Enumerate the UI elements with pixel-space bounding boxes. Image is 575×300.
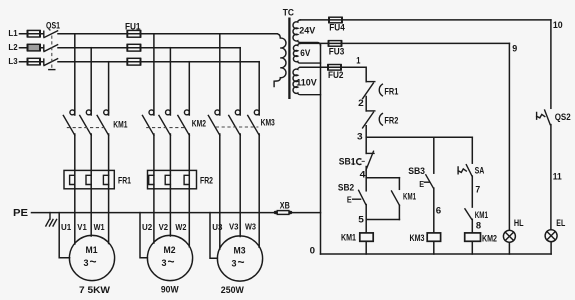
fuse FU1 pole 1 — [127, 30, 140, 38]
svg-text:L3: L3 — [8, 56, 17, 66]
wire drop group3 phase C — [258, 62, 260, 115]
svg-text:4: 4 — [360, 169, 367, 180]
svg-text:2: 2 — [358, 97, 364, 108]
thermal relay FR1 label — [118, 176, 131, 186]
wire XB to control return — [292, 212, 320, 214]
coil KM1 label — [341, 233, 356, 243]
label V1 — [77, 222, 87, 232]
thermal contact FR2 — [363, 111, 383, 128]
svg-text:7: 7 — [475, 183, 480, 194]
transformer TC secondary 6V — [293, 43, 320, 63]
motor M1 — [69, 235, 114, 280]
svg-text:E: E — [419, 179, 424, 189]
wire FR2 to motor M2 — [154, 189, 189, 247]
wire M2 frame earth — [140, 213, 147, 258]
svg-text:90W: 90W — [161, 285, 179, 295]
switch QS1 pole 2 — [44, 45, 58, 52]
label U2 — [142, 222, 152, 232]
thermal contact FR1 label — [384, 86, 398, 96]
node PE label — [13, 208, 28, 219]
label U3 — [212, 222, 222, 232]
svg-text:SB2: SB2 — [338, 182, 354, 192]
wire drop group1 phase B — [90, 48, 92, 115]
wire FU3 to node 9 — [342, 42, 510, 44]
wire coil KM1 to rail 0 — [365, 241, 367, 254]
wire M1 frame earth — [59, 213, 69, 258]
label U1 — [61, 222, 71, 232]
node 10 — [553, 19, 563, 30]
svg-text:W3: W3 — [245, 222, 256, 232]
svg-text:L1: L1 — [8, 28, 17, 38]
svg-text:V3: V3 — [229, 222, 239, 232]
wire 110V to FU2 — [300, 66, 341, 68]
coil KM2 label — [482, 233, 497, 243]
wire group1 to FR1 — [75, 134, 109, 189]
svg-text:V1: V1 — [77, 222, 87, 232]
contactor KM2 main contacts — [142, 110, 189, 135]
wire 24V to FU4 — [300, 19, 342, 21]
wire PE line — [32, 212, 275, 214]
svg-text:FU3: FU3 — [329, 47, 345, 57]
svg-text:3: 3 — [232, 258, 237, 268]
transformer TC label — [283, 6, 294, 17]
wire node 4 rail — [366, 167, 399, 178]
terminal XT3 on L3 — [28, 58, 41, 65]
svg-text:10: 10 — [553, 19, 563, 30]
svg-text:KM1: KM1 — [475, 210, 488, 220]
svg-text:~: ~ — [238, 255, 245, 269]
wire 6V to FU3 — [300, 42, 342, 44]
node 9 — [512, 42, 517, 53]
svg-text:QS1: QS1 — [46, 20, 60, 30]
switch QS2 — [537, 110, 551, 125]
bus L2 — [58, 47, 240, 49]
lamp EL — [545, 230, 557, 242]
node 7 — [475, 183, 480, 194]
wire group2 to FR2 — [154, 134, 189, 189]
node 1 — [356, 54, 360, 65]
svg-text:110V: 110V — [296, 77, 317, 87]
terminal XB label — [280, 200, 290, 210]
svg-text:KM2: KM2 — [192, 117, 206, 128]
coil KM3 — [427, 233, 440, 241]
transformer TC secondary 110V — [293, 67, 320, 94]
svg-text:3: 3 — [84, 258, 89, 268]
coil KM2 — [465, 233, 481, 241]
thermal relay FR2 — [148, 170, 197, 188]
wire node 2 — [365, 97, 367, 111]
svg-text:3: 3 — [357, 130, 363, 141]
node L2 — [8, 42, 17, 52]
svg-text:HL: HL — [514, 218, 524, 228]
wire drop group2 phase B — [169, 48, 171, 115]
fuse FU2 — [328, 64, 341, 70]
fuse FU4 — [329, 17, 342, 23]
wire FR1 to motor M1 — [75, 189, 109, 244]
ground — [46, 213, 57, 226]
node 5 — [358, 213, 364, 224]
wire SB3 to coil KM3 — [433, 188, 435, 233]
contact KM1 self-hold — [392, 178, 400, 220]
svg-text:FU2: FU2 — [328, 70, 344, 80]
wire HL to rail 0 — [508, 242, 510, 254]
lamp HL label — [514, 218, 524, 228]
wire group3 to motor M3 — [220, 134, 259, 249]
wire M3 frame earth — [210, 213, 217, 259]
svg-text:SB3: SB3 — [408, 166, 425, 176]
terminal XT1 on L1 — [28, 30, 41, 37]
wire drop group3 phase A — [219, 34, 221, 115]
lamp EL label — [556, 218, 565, 228]
wire drop group3 phase B — [239, 48, 241, 115]
wire node 10 down to QS2 — [550, 20, 552, 108]
wire rail 0 — [321, 253, 552, 255]
contactor KM1 main contacts — [63, 110, 108, 135]
transformer TC core — [288, 18, 290, 100]
svg-text:QS2: QS2 — [555, 112, 571, 122]
svg-text:U2: U2 — [142, 222, 152, 232]
node 2 — [358, 97, 364, 108]
node 11 — [553, 170, 562, 181]
motor M2 — [147, 235, 192, 280]
bus L1 — [58, 33, 277, 35]
svg-text:KM1: KM1 — [113, 118, 127, 129]
pushbutton SB2 label — [338, 182, 354, 192]
svg-text:FR2: FR2 — [384, 115, 398, 125]
wire L3 lead-in — [20, 61, 44, 63]
wire drop group1 phase C — [108, 62, 110, 115]
svg-text:8: 8 — [476, 219, 481, 230]
pushbutton SB3 (NO jog) — [419, 137, 434, 189]
thermal relay FR2 label — [200, 176, 213, 186]
pushbutton SB2 (NO start) — [347, 178, 366, 205]
fuse FU3 label — [329, 47, 345, 57]
node 6 — [436, 205, 441, 216]
svg-text:0: 0 — [310, 245, 315, 256]
node L1 — [8, 28, 17, 38]
wire FU2 to node 1 — [341, 67, 366, 81]
switch QS1 pole 1 — [44, 31, 58, 38]
label W2 — [175, 222, 186, 232]
contact KM1 in KM2 branch — [465, 209, 472, 220]
svg-text:KM3: KM3 — [261, 116, 275, 127]
wire L2 lead-in — [20, 47, 44, 49]
wire drop group2 phase C — [188, 62, 190, 115]
thermal relay FR1 — [64, 170, 114, 188]
switch QS1 linkage dashed — [49, 36, 55, 70]
pushbutton SB1 label — [339, 156, 356, 166]
thermal contact FR1 — [363, 82, 383, 99]
svg-text:PE: PE — [13, 208, 28, 219]
node 8 — [476, 219, 481, 230]
fuse FU1 label — [125, 22, 141, 32]
wire L1 lead-in — [20, 33, 44, 35]
contact KM1 in KM2 branch label — [475, 210, 488, 220]
svg-text:7 5KW: 7 5KW — [79, 285, 110, 295]
svg-text:FU4: FU4 — [329, 23, 345, 33]
thermal contact FR2 label — [384, 115, 398, 125]
switch QS2 label — [555, 112, 571, 122]
fuse FU3 — [329, 40, 342, 46]
wire common return — [320, 44, 322, 254]
label V3 — [229, 222, 239, 232]
wire drop group1 phase A — [74, 34, 76, 115]
wire node 3 rail — [366, 126, 472, 138]
coil KM1 — [360, 233, 373, 241]
label M3 power — [221, 285, 244, 295]
wire node 5 rail — [366, 205, 399, 233]
wire SA to contact KM1 — [471, 176, 473, 207]
node 0 — [310, 245, 315, 256]
svg-text:KM2: KM2 — [482, 233, 497, 243]
svg-text:9: 9 — [512, 42, 517, 53]
wire coil KM3 to rail 0 — [433, 241, 435, 254]
fuse FU1 pole 3 — [127, 58, 140, 66]
svg-text:KM1: KM1 — [403, 191, 416, 201]
svg-text:V2: V2 — [159, 222, 169, 232]
svg-text:FR1: FR1 — [118, 176, 131, 186]
wire FU4 to node 10 — [342, 19, 551, 21]
svg-text:FR1: FR1 — [384, 86, 398, 96]
pushbutton SB1 (NC stop) — [353, 137, 374, 170]
contactor KM2 label — [192, 117, 206, 128]
svg-text:3: 3 — [162, 258, 167, 268]
contact KM1 self-hold label — [403, 191, 416, 201]
wire drop group2 phase A — [153, 34, 155, 115]
svg-text:XB: XB — [280, 200, 290, 210]
switch QS1 pole 3 — [44, 59, 58, 66]
motor M3 — [217, 236, 262, 281]
contactor KM3 main contacts — [208, 110, 259, 135]
svg-text:TC: TC — [283, 6, 294, 17]
svg-text:1: 1 — [356, 54, 360, 65]
wire coil KM2 to rail 0 — [471, 241, 473, 254]
switch QS1 label — [46, 20, 60, 30]
svg-text:6V: 6V — [300, 48, 310, 58]
svg-text:24V: 24V — [299, 25, 315, 35]
svg-text:E: E — [347, 194, 352, 204]
transformer TC secondary 24V — [293, 20, 320, 46]
switch SA label — [475, 166, 485, 176]
label W1 — [94, 222, 105, 232]
svg-text:FR2: FR2 — [200, 176, 213, 186]
lamp HL — [503, 230, 515, 242]
contactor KM3 label — [261, 116, 275, 127]
wire node 9 down to lamp HL — [508, 43, 510, 230]
label M1 power — [79, 285, 110, 295]
fuse FU1 pole 2 — [127, 44, 140, 52]
node 3 — [357, 130, 363, 141]
label V2 — [159, 222, 169, 232]
terminal XB — [274, 211, 293, 215]
svg-text:~: ~ — [168, 254, 175, 268]
fuse FU2 label — [328, 70, 344, 80]
contactor KM1 label — [113, 118, 127, 129]
svg-text:250W: 250W — [221, 285, 244, 295]
transformer TC primary — [274, 34, 286, 87]
svg-text:~: ~ — [90, 254, 97, 268]
svg-text:W2: W2 — [175, 222, 186, 232]
pushbutton SB3 label — [408, 166, 425, 176]
bus L3 — [58, 61, 259, 63]
svg-text:5: 5 — [358, 213, 364, 224]
svg-text:W1: W1 — [94, 222, 105, 232]
node L3 — [8, 56, 17, 66]
svg-text:6: 6 — [436, 205, 441, 216]
svg-text:U3: U3 — [212, 222, 222, 232]
switch SA — [458, 137, 472, 176]
svg-text:U1: U1 — [61, 222, 71, 232]
svg-text:KM1: KM1 — [341, 233, 356, 243]
fuse FU4 label — [329, 23, 345, 33]
label M2 power — [161, 285, 179, 295]
coil KM3 label — [410, 233, 425, 243]
terminal XT2 on L2 — [28, 44, 41, 51]
wire EL to rail 0 — [550, 242, 552, 254]
svg-text:KM3: KM3 — [410, 233, 425, 243]
wire QS2 to node 11 and lamp EL — [550, 125, 552, 230]
svg-text:EL: EL — [556, 218, 565, 228]
svg-text:L2: L2 — [8, 42, 17, 52]
svg-text:SA: SA — [475, 166, 485, 176]
wire contact to coil KM2 — [471, 219, 473, 233]
svg-text:11: 11 — [553, 170, 562, 181]
node 4 — [360, 169, 367, 180]
label W3 — [245, 222, 256, 232]
